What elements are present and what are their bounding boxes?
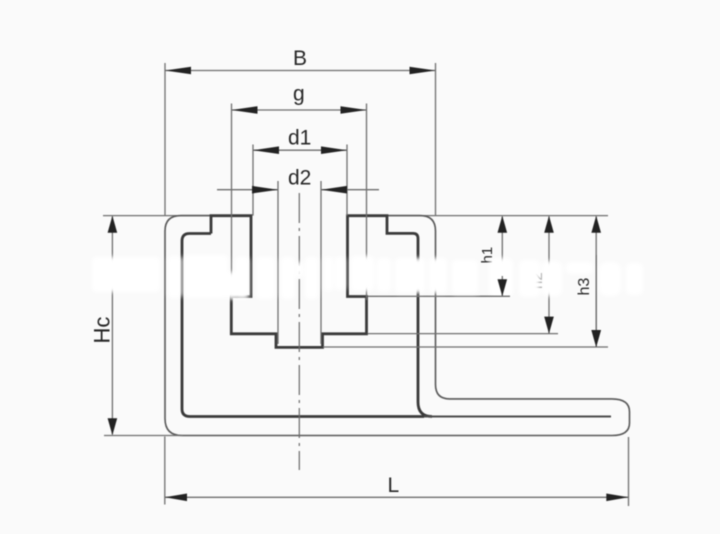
svg-text:h3: h3: [576, 278, 593, 296]
dimension Hc: [90, 216, 184, 436]
dimension g: [232, 83, 367, 301]
inner left wall and cavity bottom: [182, 234, 424, 417]
svg-text:Hc: Hc: [90, 317, 115, 344]
svg-text:B: B: [293, 47, 307, 70]
crown slot outline: [211, 216, 432, 417]
h3 line redraw: [591, 255, 601, 347]
profile outer outline: [165, 216, 630, 436]
watermark band: [92, 255, 643, 299]
svg-text:L: L: [388, 474, 400, 497]
dimension d1: [253, 127, 347, 216]
dimension h2: [368, 216, 558, 334]
dimension h3: [323, 216, 608, 347]
svg-text:d1: d1: [288, 127, 311, 150]
svg-text:g: g: [293, 83, 305, 106]
dimension B: [165, 47, 436, 216]
dimension h1: [368, 216, 510, 296]
top face line with slot gap: [103, 215, 608, 217]
arm middle line: [424, 416, 611, 418]
centerline: [298, 193, 300, 470]
dimension L: [165, 437, 629, 507]
dimension d2: [217, 166, 379, 344]
svg-text:d2: d2: [288, 166, 311, 189]
h1 lower arrow redraw: [480, 276, 510, 296]
